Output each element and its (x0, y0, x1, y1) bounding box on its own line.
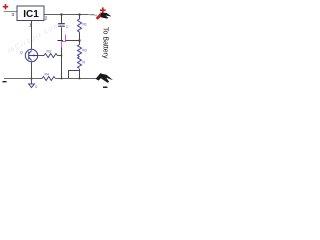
wire stub left (58, 40, 64, 42)
node base junction (61, 55, 63, 57)
wire x62 upper (61, 15, 63, 24)
terminal - (bottom-left) (3, 81, 7, 82)
resistor VR (vertical) (78, 57, 82, 69)
wire pink jog (62, 35, 66, 48)
node rail x62 (61, 78, 63, 80)
wire pin1 to collector (31, 21, 33, 50)
op-amp IC1 (17, 6, 44, 21)
resistor R4 (horizontal, in rail) (42, 77, 55, 81)
svg-text:To Battery: To Battery (102, 27, 109, 59)
svg-text:R2: R2 (83, 49, 87, 53)
wire divider tap (66, 40, 80, 42)
node emitter-rail (31, 78, 33, 80)
bottom rail right (56, 78, 98, 80)
wire R3 to node (58, 55, 62, 57)
node tap x80 (79, 40, 81, 42)
bottom rail left (4, 78, 42, 80)
wire x80 top lead (79, 15, 81, 20)
battery clip + (top right) (88, 13, 111, 20)
wire top rail (44, 14, 94, 16)
capacitor C1 (58, 23, 65, 25)
wire x62 mid (61, 27, 63, 41)
resistor R1 (vertical) (78, 19, 82, 32)
wire emitter down (31, 62, 33, 84)
wire x80 bottom lead (79, 69, 81, 79)
svg-text:2: 2 (45, 16, 48, 21)
svg-text:Q: Q (20, 51, 23, 55)
terminal + (top-left) (3, 4, 8, 9)
battery clip - (bottom right) (96, 73, 113, 83)
- label (battery) (103, 87, 107, 89)
svg-text:R3: R3 (47, 50, 51, 54)
node top-rail x80 (79, 14, 81, 16)
+ label (battery) (100, 7, 106, 13)
wire base to R (38, 55, 44, 57)
svg-text:R1: R1 (83, 23, 87, 27)
wire elbow (69, 71, 80, 79)
svg-text:IC1: IC1 (23, 9, 39, 20)
transistor Q1 (25, 49, 37, 61)
resistor R3 (horizontal) (44, 54, 57, 58)
node top-rail x62 (61, 14, 63, 16)
resistor R2 (vertical) (78, 45, 82, 57)
node rail x80 (79, 78, 81, 80)
svg-text:R4: R4 (45, 73, 49, 77)
svg-text:0: 0 (35, 85, 37, 89)
svg-text:3: 3 (12, 12, 15, 17)
wire x80 mid lead (79, 32, 81, 44)
wire x62 lower (61, 48, 63, 79)
wire pin3 (4, 11, 18, 13)
ground (29, 84, 35, 88)
